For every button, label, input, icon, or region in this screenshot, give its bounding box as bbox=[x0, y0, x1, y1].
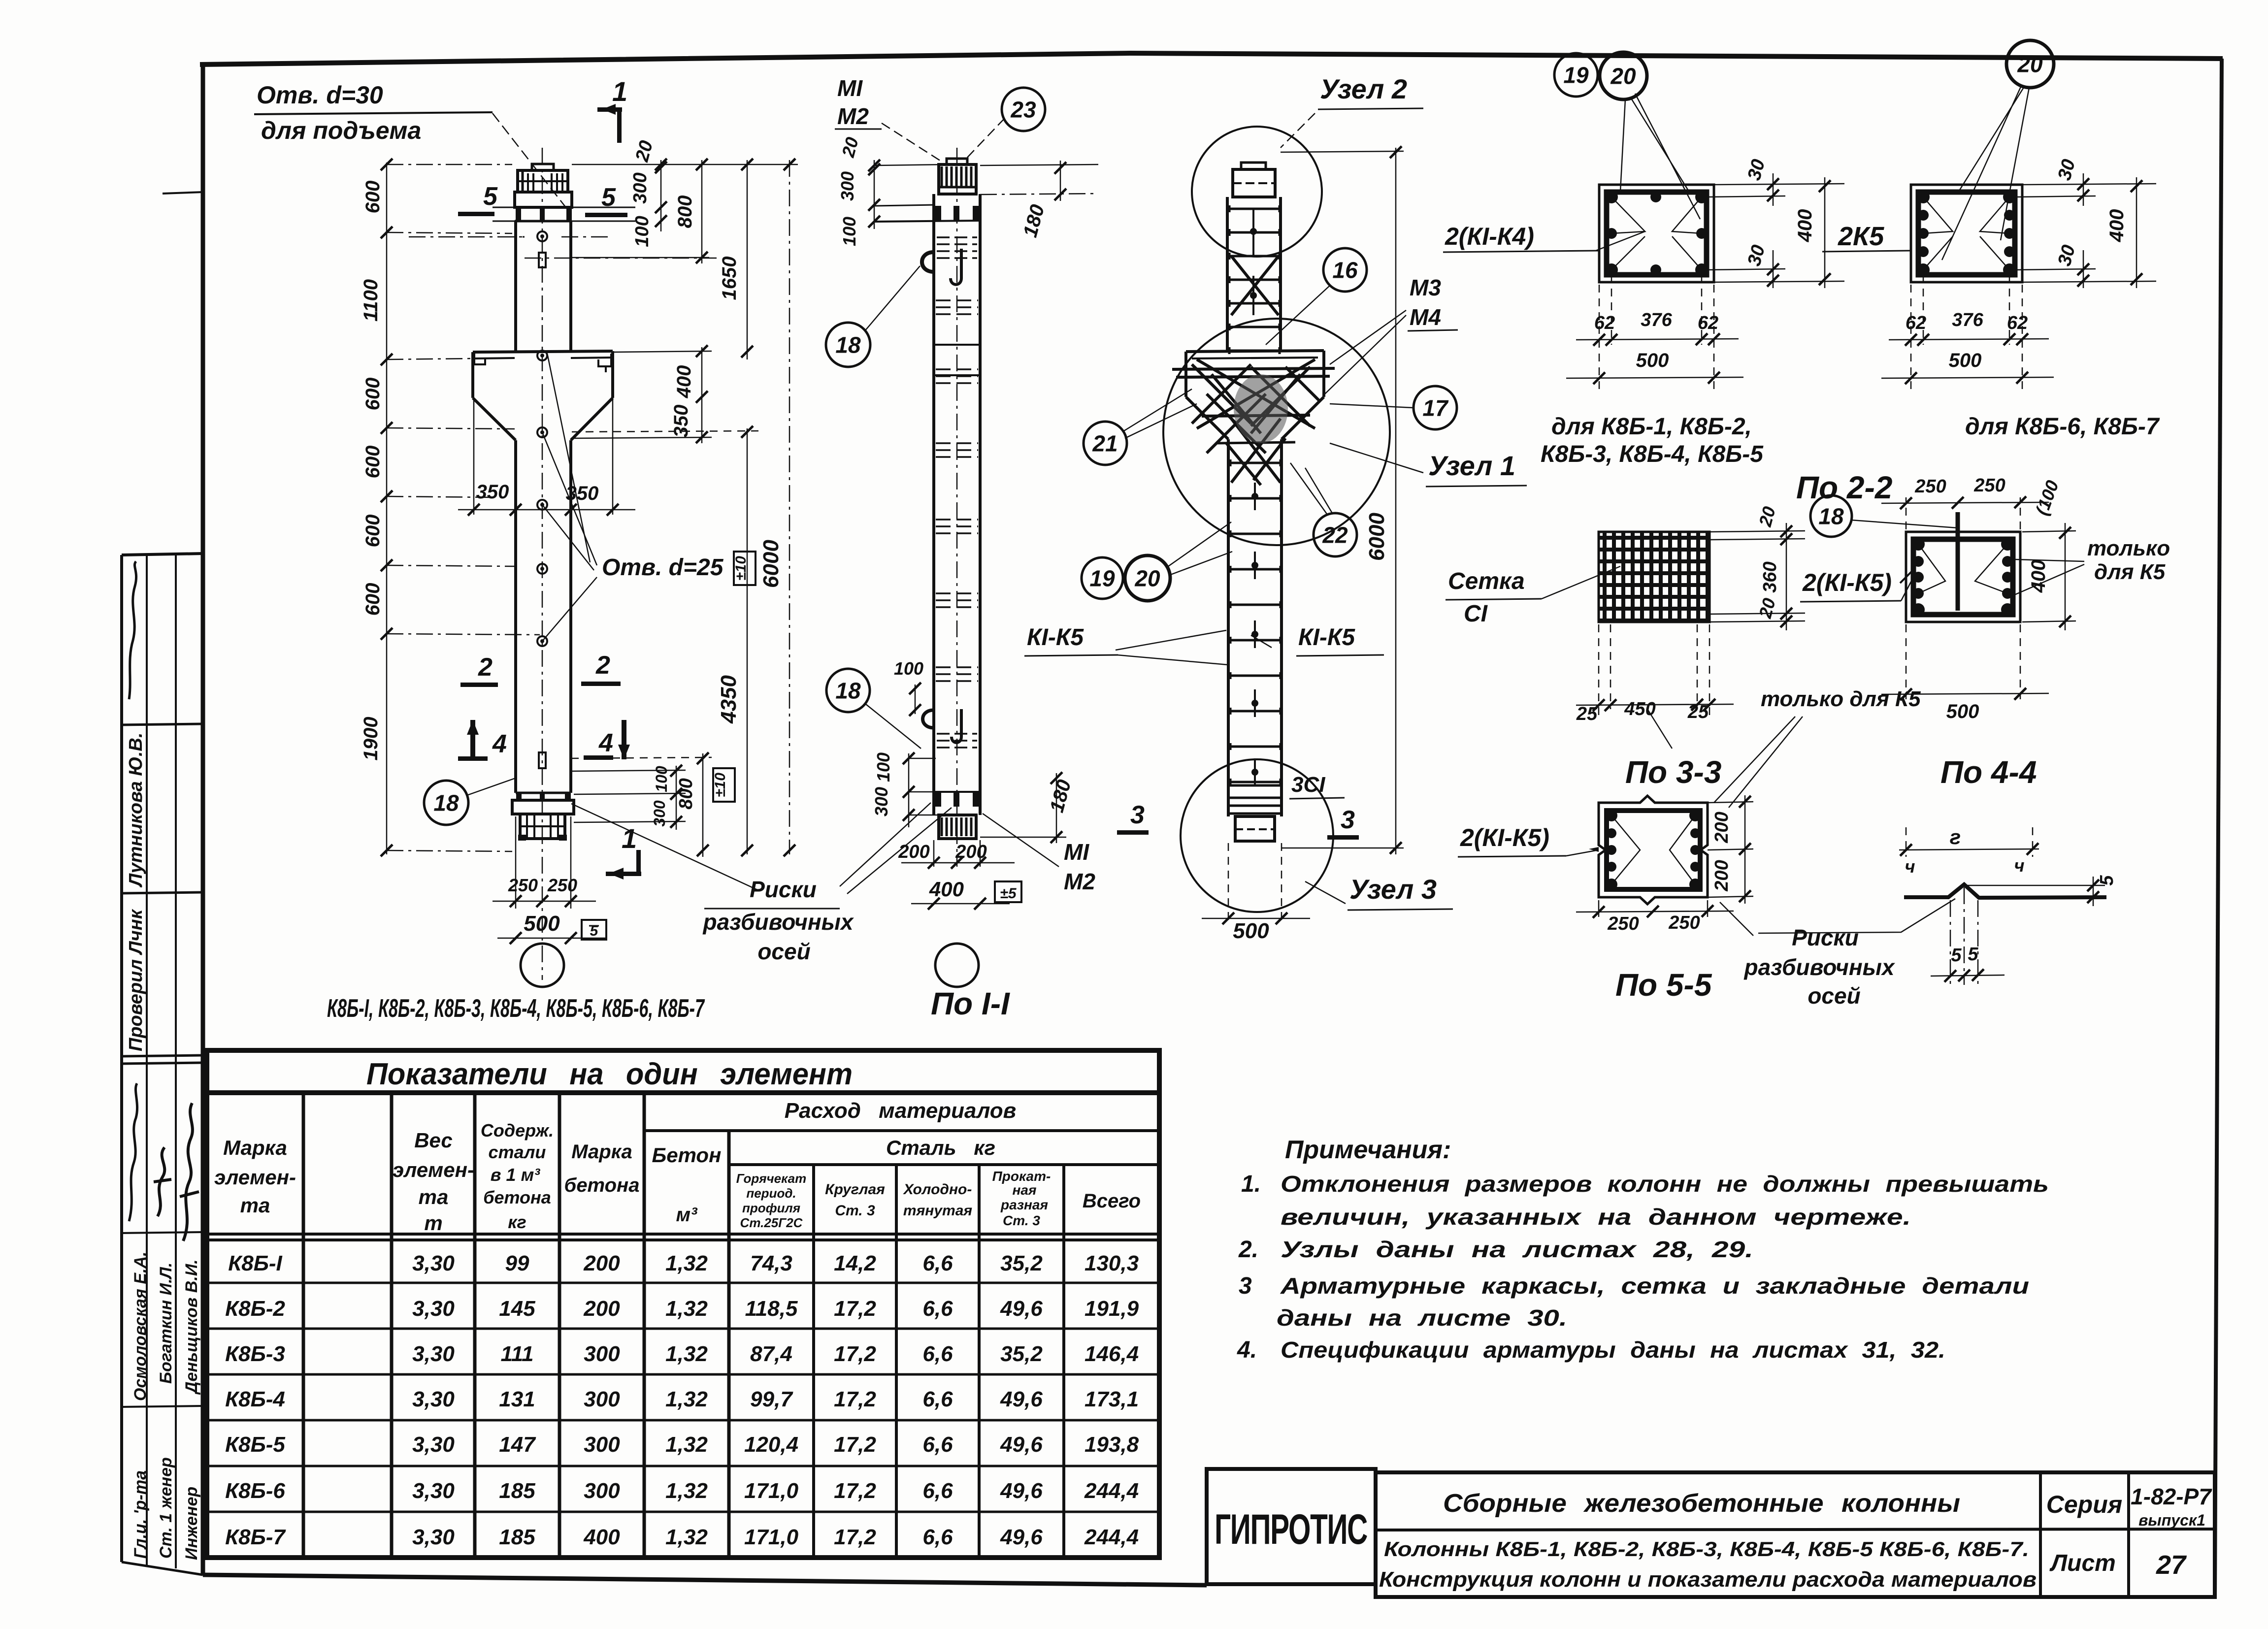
svg-text:Ст. 1 женер: Ст. 1 женер bbox=[157, 1457, 175, 1559]
svg-text:Вес: Вес bbox=[414, 1129, 453, 1152]
svg-text:1650: 1650 bbox=[719, 257, 740, 300]
svg-text:М4: М4 bbox=[1410, 304, 1441, 330]
svg-text:Ст.25Г2С: Ст.25Г2С bbox=[740, 1215, 803, 1230]
uzel3 detail circle bbox=[1181, 759, 1333, 912]
svg-text:800: 800 bbox=[676, 778, 696, 809]
svg-text:т: т bbox=[424, 1211, 442, 1235]
svg-text:К8Б-3: К8Б-3 bbox=[225, 1342, 285, 1366]
svg-text:Ст. 3: Ст. 3 bbox=[1003, 1213, 1040, 1228]
svg-text:осей: осей bbox=[757, 939, 810, 964]
svg-text:3,30: 3,30 bbox=[412, 1433, 455, 1457]
svg-text:400: 400 bbox=[2028, 560, 2049, 593]
signature strip column divider 1 bbox=[146, 554, 148, 1565]
svg-text:17: 17 bbox=[1422, 395, 1449, 421]
svg-text:244,4: 244,4 bbox=[1084, 1525, 1139, 1549]
svg-text:та: та bbox=[240, 1194, 270, 1217]
svg-text:Горячекат: Горячекат bbox=[736, 1171, 806, 1186]
svg-text:17,2: 17,2 bbox=[834, 1525, 876, 1549]
signature strip row line C double bbox=[122, 1055, 203, 1056]
svg-text:350: 350 bbox=[476, 481, 509, 503]
hole top d30 bbox=[537, 231, 547, 241]
bottom cap feet bbox=[518, 835, 526, 841]
svg-text:350: 350 bbox=[566, 483, 599, 504]
svg-text:Холодно-: Холодно- bbox=[903, 1181, 972, 1198]
table title row line bbox=[207, 1090, 1159, 1095]
svg-text:21: 21 bbox=[1092, 431, 1118, 456]
Po1-1 left dims 20 300 100 bbox=[874, 160, 875, 229]
left dimension chain column1 bbox=[386, 163, 388, 854]
col3 shaft bbox=[1226, 197, 1229, 352]
detail circle 18 top Po1-1 bbox=[826, 323, 870, 367]
svg-text:100: 100 bbox=[653, 766, 670, 792]
svg-text:2.: 2. bbox=[1238, 1237, 1258, 1263]
svg-text:5: 5 bbox=[2097, 875, 2117, 886]
col3 console bottom chords bbox=[1202, 415, 1310, 416]
zigzag dim g top bbox=[1906, 827, 1907, 857]
table stal line bbox=[729, 1163, 1159, 1166]
svg-text:Колонны К8Б-1, К8Б-2, К8Б-3, К: Колонны К8Б-1, К8Б-2, К8Б-3, К8Б-4, К8Б-… bbox=[1384, 1537, 2029, 1561]
svg-text:Круглая: Круглая bbox=[825, 1181, 885, 1198]
svg-text:118,5: 118,5 bbox=[745, 1297, 798, 1321]
svg-text:350: 350 bbox=[670, 405, 692, 438]
svg-text:49,6: 49,6 bbox=[1000, 1387, 1043, 1411]
col3 bottom band bbox=[1228, 784, 1282, 787]
svg-text:Узел 1: Узел 1 bbox=[1428, 450, 1515, 481]
detail circle 16 bbox=[1323, 248, 1367, 292]
svg-text:1,32: 1,32 bbox=[665, 1342, 708, 1366]
svg-text:62: 62 bbox=[1906, 313, 1926, 333]
Po1-1 shaft bbox=[932, 194, 935, 815]
svg-text:стали: стали bbox=[489, 1142, 546, 1162]
signature strip row line B bbox=[122, 892, 203, 893]
svg-text:147: 147 bbox=[499, 1433, 536, 1457]
leader risk lines to Po1-1 base bbox=[840, 803, 931, 886]
svg-text:17,2: 17,2 bbox=[834, 1297, 876, 1321]
svg-text:14,2: 14,2 bbox=[834, 1251, 876, 1275]
svg-text:200: 200 bbox=[898, 842, 929, 862]
console chamfer right bbox=[571, 398, 613, 440]
detail circle 17 bbox=[1413, 386, 1457, 429]
col3 console outline bbox=[1186, 351, 1324, 352]
svg-text:Лутникова Ю.В.: Лутникова Ю.В. bbox=[126, 733, 146, 888]
title block row divider bbox=[1376, 1529, 2215, 1530]
Po1-1 dim 400 bbox=[911, 903, 1010, 905]
circle 20 over Po2-2 right bbox=[2006, 40, 2054, 88]
holes d25 on shaft bbox=[537, 427, 547, 437]
svg-text:Содерж.: Содерж. bbox=[481, 1120, 554, 1140]
svg-text:Гл.и. 'р-та: Гл.и. 'р-та bbox=[131, 1470, 150, 1559]
svg-text:500: 500 bbox=[1636, 350, 1669, 371]
svg-text:250: 250 bbox=[547, 875, 577, 895]
signature strip row line D bbox=[122, 1232, 203, 1233]
svg-text:300: 300 bbox=[630, 172, 651, 203]
svg-text:100: 100 bbox=[632, 216, 653, 247]
Po1-1 dim 180 bottom bbox=[1056, 773, 1057, 843]
svg-text:6,6: 6,6 bbox=[922, 1433, 953, 1457]
Po4-4 spider lines bbox=[1918, 544, 1945, 593]
svg-text:100: 100 bbox=[873, 752, 893, 782]
svg-text:для К8Б-6, К8Б-7: для К8Б-6, К8Б-7 bbox=[1965, 414, 2160, 440]
detail circle 18 left column bbox=[424, 781, 468, 825]
signature scribble col2 bbox=[154, 1147, 171, 1216]
svg-text:25: 25 bbox=[1687, 702, 1709, 722]
svg-text:185: 185 bbox=[499, 1525, 535, 1549]
Po1-1 top comb cap bbox=[939, 164, 976, 194]
svg-text:Узел 3: Узел 3 bbox=[1349, 874, 1437, 905]
svg-text:Осмоловская Е.А.: Осмоловская Е.А. bbox=[131, 1252, 150, 1401]
svg-text:бетона: бетона bbox=[564, 1174, 640, 1196]
svg-text:400: 400 bbox=[673, 365, 695, 399]
table header verticals bbox=[302, 1093, 305, 1558]
svg-text:период.: период. bbox=[746, 1186, 796, 1201]
dash-dot line y524 to dim 1650 bbox=[525, 258, 717, 259]
svg-text:в 1 м³: в 1 м³ bbox=[491, 1165, 540, 1185]
column1 bottom right dims 100 300 800 bbox=[571, 770, 686, 771]
console right hook detail bbox=[598, 354, 611, 372]
svg-text:300: 300 bbox=[584, 1342, 620, 1366]
svg-text:4: 4 bbox=[492, 730, 507, 758]
insert rect lower bbox=[539, 752, 546, 768]
svg-text:Сборные железобетонные кол: Сборные железобетонные колонны bbox=[1443, 1489, 1960, 1518]
column K8B upper shaft bbox=[514, 221, 517, 352]
detail circle 23 bbox=[1002, 88, 1045, 131]
svg-text:1.: 1. bbox=[1241, 1171, 1261, 1197]
svg-text:244,4: 244,4 bbox=[1084, 1479, 1139, 1503]
zigzag dim 5 right bbox=[2093, 877, 2094, 906]
svg-text:18: 18 bbox=[433, 790, 459, 816]
svg-text:6,6: 6,6 bbox=[922, 1251, 953, 1275]
col3 upper shaft X brace bbox=[1231, 256, 1279, 315]
detail circle 18 bottom Po1-1 bbox=[826, 669, 870, 712]
sheet border frame right bbox=[2215, 59, 2222, 1597]
svg-text:±5: ±5 bbox=[1000, 885, 1017, 902]
svg-text:Конструкция колонн и показател: Конструкция колонн и показатели расхода … bbox=[1379, 1567, 2037, 1592]
col3 dim 6000 bbox=[1395, 148, 1397, 854]
svg-text:600: 600 bbox=[362, 515, 384, 548]
svg-text:для К8Б-1, К8Б-2,: для К8Б-1, К8Б-2, bbox=[1551, 414, 1752, 440]
Po1-1 hook item18 top bbox=[922, 252, 934, 272]
svg-text:только для К5: только для К5 bbox=[1761, 687, 1921, 711]
Po1-1 top embed squares bbox=[935, 206, 941, 222]
svg-text:2: 2 bbox=[595, 651, 610, 680]
Po1-1 bottom comb cap bbox=[939, 815, 976, 839]
svg-text:К8Б-7: К8Б-7 bbox=[225, 1525, 286, 1549]
svg-text:200: 200 bbox=[583, 1297, 620, 1321]
svg-text:Риски: Риски bbox=[1792, 925, 1859, 950]
base circle Po1-1 bbox=[935, 944, 979, 987]
svg-text:К8Б-І, К8Б-2, К8Б-3, К8Б-4, К8: К8Б-І, К8Б-2, К8Б-3, К8Б-4, К8Б-5, К8Б-6… bbox=[327, 994, 705, 1023]
svg-text:17,2: 17,2 bbox=[834, 1433, 876, 1457]
svg-text:300: 300 bbox=[837, 171, 857, 201]
tolerance box 10 lower bbox=[713, 768, 735, 802]
Po1-1 right dim 180 top bbox=[980, 164, 1098, 165]
svg-text:профиля: профиля bbox=[742, 1201, 800, 1215]
svg-text:49,6: 49,6 bbox=[1000, 1479, 1043, 1503]
detail circles 19 20 col3 bbox=[1082, 557, 1123, 599]
svg-text:тянутая: тянутая bbox=[903, 1203, 973, 1219]
svg-text:Всего: Всего bbox=[1083, 1190, 1141, 1212]
svg-text:осей: осей bbox=[1808, 983, 1860, 1009]
svg-text:250: 250 bbox=[1914, 476, 1946, 497]
svg-text:173,1: 173,1 bbox=[1085, 1387, 1139, 1411]
section Po5-5 box bbox=[1599, 796, 1708, 904]
svg-text:По І-І: По І-І bbox=[931, 986, 1010, 1021]
svg-text:120,4: 120,4 bbox=[744, 1433, 798, 1457]
column K8B bottom plate bbox=[512, 800, 574, 814]
detail circle 22 bbox=[1314, 513, 1357, 556]
svg-text:1,32: 1,32 bbox=[665, 1525, 708, 1549]
svg-text:М2: М2 bbox=[1064, 869, 1095, 894]
svg-text:3: 3 bbox=[1239, 1273, 1252, 1299]
svg-text:62: 62 bbox=[1594, 313, 1615, 333]
svg-text:400: 400 bbox=[929, 878, 964, 901]
svg-text:разная: разная bbox=[1000, 1197, 1048, 1212]
svg-text:250: 250 bbox=[1607, 913, 1639, 934]
svg-text:МІ: МІ bbox=[837, 75, 863, 101]
Po4-4 dim 400 bbox=[2022, 531, 2076, 532]
svg-text:19: 19 bbox=[1089, 566, 1115, 591]
svg-text:кг: кг bbox=[508, 1212, 526, 1232]
section Po2-2 left concrete box bbox=[1599, 185, 1714, 282]
svg-text:18: 18 bbox=[835, 332, 861, 358]
svg-text:К8Б-5: К8Б-5 bbox=[225, 1433, 285, 1457]
svg-text:М3: М3 bbox=[1410, 275, 1441, 300]
svg-text:Расход материалов: Расход материалов bbox=[785, 1099, 1016, 1123]
svg-text:3,30: 3,30 bbox=[412, 1525, 455, 1549]
svg-text:500: 500 bbox=[1233, 919, 1269, 943]
svg-text:20: 20 bbox=[1610, 64, 1636, 89]
svg-text:74,3: 74,3 bbox=[750, 1251, 792, 1275]
svg-text:К8Б-І: К8Б-І bbox=[228, 1251, 282, 1275]
Po5-5 dims bottom 250 250 bbox=[1598, 900, 1600, 917]
sheet border frame left bbox=[201, 65, 205, 1575]
Po1-1 top plate bbox=[947, 159, 967, 164]
svg-text:49,6: 49,6 bbox=[1000, 1525, 1043, 1549]
svg-text:146,4: 146,4 bbox=[1085, 1342, 1139, 1366]
Po2-2 left dims right side bbox=[1714, 184, 1844, 185]
svg-text:191,9: 191,9 bbox=[1085, 1297, 1139, 1321]
column K8B top lifting plate bbox=[532, 164, 554, 170]
svg-text:23: 23 bbox=[1010, 97, 1036, 123]
Po2-2 left rebar frame bbox=[1607, 192, 1707, 275]
svg-text:145: 145 bbox=[499, 1297, 535, 1321]
svg-text:Серия: Серия bbox=[2046, 1491, 2122, 1518]
column Po1-1 centerline bbox=[956, 148, 958, 867]
Po2-2 right spider lines bbox=[1923, 197, 1953, 233]
col3 console cross members bbox=[1172, 368, 1335, 369]
svg-text:20: 20 bbox=[1134, 566, 1160, 591]
col3 top cap bbox=[1241, 163, 1266, 169]
console dim 400-350 right bbox=[613, 351, 712, 352]
svg-text:200: 200 bbox=[1711, 860, 1732, 891]
svg-text:5: 5 bbox=[1968, 944, 1978, 965]
svg-text:бетона: бетона bbox=[483, 1187, 551, 1207]
dash-dot through top hole bbox=[409, 236, 522, 238]
svg-text:3: 3 bbox=[1130, 801, 1145, 829]
table row lines bbox=[207, 1282, 1159, 1284]
svg-text:400: 400 bbox=[583, 1525, 620, 1549]
dim 1650 bbox=[747, 160, 748, 359]
svg-text:±10: ±10 bbox=[712, 773, 728, 797]
svg-text:16: 16 bbox=[1332, 258, 1358, 283]
table Pokazateli outer frame bbox=[207, 1050, 1159, 1558]
svg-text:400: 400 bbox=[2106, 209, 2128, 243]
svg-text:300: 300 bbox=[651, 800, 668, 827]
svg-text:1,32: 1,32 bbox=[665, 1387, 708, 1411]
base circle column1 bbox=[521, 944, 564, 987]
zigzag dims 5 5 bottom bbox=[1950, 900, 1951, 985]
Po2-2 left dims bottom 62 376 62 bbox=[1599, 285, 1600, 389]
Po4-4 dim 500 bbox=[1906, 624, 1907, 699]
svg-text:Отв. d=30: Отв. d=30 bbox=[257, 81, 383, 109]
zigzag thin top line bbox=[1965, 885, 2105, 886]
title block main box bbox=[1376, 1472, 2215, 1597]
dim 4350 bbox=[747, 428, 748, 854]
svg-text:Примечания:: Примечания: bbox=[1285, 1136, 1451, 1164]
svg-text:400: 400 bbox=[1794, 209, 1816, 243]
svg-text:2К5: 2К5 bbox=[1838, 222, 1884, 251]
svg-text:376: 376 bbox=[1952, 310, 1983, 330]
svg-text:По 3-3: По 3-3 bbox=[1625, 754, 1721, 790]
svg-text:Сталь кг: Сталь кг bbox=[886, 1136, 995, 1159]
svg-text:49,6: 49,6 bbox=[1000, 1433, 1043, 1457]
Po4-4 rebar frame bbox=[1913, 539, 2013, 615]
collar insert rect bbox=[539, 253, 546, 267]
svg-text:300: 300 bbox=[584, 1433, 620, 1457]
bottom dim 500 bbox=[497, 938, 606, 939]
tolerance box 5 Po1-1 bbox=[995, 881, 1021, 902]
svg-text:2(КІ-К5): 2(КІ-К5) bbox=[1802, 569, 1892, 596]
svg-text:1,32: 1,32 bbox=[665, 1479, 708, 1503]
signature strip outer box bbox=[122, 554, 203, 555]
svg-text:500: 500 bbox=[524, 912, 560, 936]
column K8B top cap body bbox=[518, 170, 568, 192]
column K8B lower shaft bbox=[514, 440, 517, 793]
svg-text:6,6: 6,6 bbox=[922, 1525, 953, 1549]
leader lines to Отв d=25 bbox=[542, 432, 597, 565]
column K8B cap collar bbox=[515, 192, 572, 207]
column K8B anchor band bbox=[515, 206, 572, 209]
svg-text:Сетка: Сетка bbox=[1448, 568, 1525, 594]
svg-text:100: 100 bbox=[839, 217, 859, 246]
section Po2-2 right concrete box bbox=[1911, 185, 2022, 282]
svg-text:По 5-5: По 5-5 bbox=[1615, 967, 1712, 1003]
col3 console X bracing bbox=[1192, 364, 1251, 424]
column K8B bottom anchor band bbox=[516, 792, 571, 794]
svg-text:4350: 4350 bbox=[717, 675, 741, 724]
svg-text:Бетон: Бетон bbox=[652, 1143, 722, 1167]
svg-text:1,32: 1,32 bbox=[665, 1297, 708, 1321]
Po4-4 center bar bbox=[1956, 512, 1960, 611]
Po2-2 right dims right side bbox=[2022, 184, 2156, 185]
svg-text:18: 18 bbox=[1818, 504, 1844, 529]
svg-text:Ст. 3: Ст. 3 bbox=[835, 1203, 875, 1219]
svg-text:разбивочных: разбивочных bbox=[1743, 954, 1895, 980]
Po1-1 bottom dims 100 300 bbox=[908, 753, 910, 827]
svg-text:200: 200 bbox=[1711, 812, 1732, 843]
col3 lower shaft bbox=[1227, 439, 1230, 816]
Po1-1 solid joint lines bbox=[934, 344, 980, 346]
svg-text:выпуск1: выпуск1 bbox=[2138, 1511, 2205, 1529]
svg-text:величин, указанных на данно: величин, указанных на данном чертеже. bbox=[1281, 1204, 1911, 1230]
svg-text:Лист: Лист bbox=[2049, 1550, 2116, 1576]
svg-text:600: 600 bbox=[362, 181, 384, 214]
dim 6000 column1 bbox=[789, 160, 790, 854]
svg-text:3,30: 3,30 bbox=[412, 1297, 455, 1321]
hole console d25 bbox=[537, 351, 547, 360]
Po5-5 rebar frame bbox=[1607, 811, 1700, 889]
svg-text:200: 200 bbox=[955, 842, 986, 862]
uzel2 detail circle bbox=[1192, 127, 1322, 257]
svg-text:500: 500 bbox=[1949, 350, 1982, 371]
svg-text:Отв. d=25: Отв. d=25 bbox=[602, 554, 724, 581]
svg-text:4: 4 bbox=[598, 729, 613, 757]
svg-text:6,6: 6,6 bbox=[922, 1387, 953, 1411]
svg-text:для К5: для К5 bbox=[2094, 560, 2166, 584]
svg-text:800: 800 bbox=[674, 195, 696, 228]
svg-text:элемен-: элемен- bbox=[393, 1158, 474, 1181]
svg-text:Риски: Риски bbox=[750, 877, 817, 902]
title block col divider seriya bbox=[2039, 1472, 2042, 1597]
svg-text:разбивочных: разбивочных bbox=[702, 909, 854, 935]
circles 19 20 over Po2-2 left bbox=[1554, 53, 1598, 97]
svg-text:Показатели на один эл: Показатели на один элемент bbox=[366, 1057, 853, 1091]
svg-text:6000: 6000 bbox=[759, 540, 783, 588]
svg-text:87,4: 87,4 bbox=[750, 1342, 792, 1366]
mesh C1 grid bbox=[1599, 532, 1709, 622]
svg-text:22: 22 bbox=[1322, 522, 1348, 548]
Po1-1 hook item18 bottom bbox=[923, 710, 934, 728]
Po2-2 right rebar frame bbox=[1918, 192, 2015, 275]
svg-text:1900: 1900 bbox=[360, 717, 382, 761]
svg-text:1: 1 bbox=[612, 76, 627, 107]
svg-text:360: 360 bbox=[1760, 561, 1780, 592]
svg-text:600: 600 bbox=[362, 378, 384, 411]
svg-text:376: 376 bbox=[1641, 310, 1672, 330]
svg-text:Марка: Марка bbox=[571, 1141, 632, 1163]
svg-text:МІ: МІ bbox=[1064, 839, 1089, 865]
dim 800 top bbox=[701, 160, 703, 263]
svg-text:элемен-: элемен- bbox=[214, 1166, 296, 1189]
svg-text:3,30: 3,30 bbox=[412, 1251, 455, 1275]
svg-text:250: 250 bbox=[1668, 912, 1700, 933]
sheet border frame bottom bbox=[203, 1575, 1207, 1585]
svg-text:3,30: 3,30 bbox=[412, 1342, 455, 1366]
col3 center bar lower bbox=[1254, 483, 1256, 510]
svg-text:450: 450 bbox=[1624, 699, 1655, 719]
svg-text:17,2: 17,2 bbox=[834, 1342, 876, 1366]
svg-text:М2: М2 bbox=[837, 103, 869, 129]
svg-text:К8Б-3, К8Б-4, К8Б-5: К8Б-3, К8Б-4, К8Б-5 bbox=[1541, 441, 1764, 467]
mesh dims bbox=[1709, 531, 1805, 532]
svg-text:Деньщиков В.И.: Деньщиков В.И. bbox=[182, 1259, 201, 1395]
svg-text:35,2: 35,2 bbox=[1000, 1342, 1043, 1366]
svg-text:ная: ная bbox=[1013, 1182, 1037, 1198]
signature strip row line E bbox=[122, 1406, 203, 1407]
Po2-2 right dims bottom bbox=[1910, 285, 1912, 389]
sheet border frame top bbox=[200, 53, 2223, 65]
svg-text:6,6: 6,6 bbox=[922, 1297, 953, 1321]
leader to cap bbox=[493, 113, 565, 207]
svg-text:131: 131 bbox=[499, 1387, 535, 1411]
svg-text:ч: ч bbox=[2014, 855, 2025, 876]
svg-text:ГИПРОТИС: ГИПРОТИС bbox=[1215, 1506, 1367, 1553]
svg-text:Узлы даны на листах 28,: Узлы даны на листах 28, 29. bbox=[1281, 1237, 1753, 1262]
datum extension lines column1 bbox=[387, 164, 512, 165]
svg-text:3,30: 3,30 bbox=[412, 1479, 455, 1503]
svg-text:4.: 4. bbox=[1237, 1337, 1257, 1363]
tolerance box 10 upper bbox=[734, 552, 756, 585]
